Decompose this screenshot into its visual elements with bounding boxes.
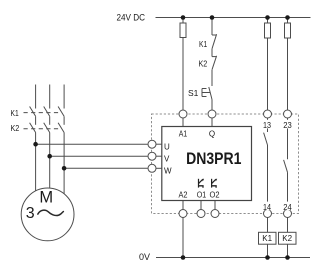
svg-text:K1: K1 [11, 108, 19, 118]
svg-text:O2: O2 [210, 191, 221, 200]
svg-text:DN3PR1: DN3PR1 [186, 150, 242, 168]
svg-text:23: 23 [283, 121, 292, 130]
svg-text:13: 13 [263, 121, 271, 130]
svg-text:W: W [164, 167, 172, 176]
svg-text:U: U [164, 143, 170, 152]
svg-text:O1: O1 [197, 191, 207, 200]
svg-text:K1: K1 [199, 39, 207, 49]
svg-text:A1: A1 [179, 130, 188, 139]
svg-text:14: 14 [263, 203, 271, 212]
svg-text:K2: K2 [282, 234, 292, 243]
svg-text:A2: A2 [179, 191, 188, 200]
svg-text:3: 3 [26, 205, 35, 222]
svg-text:K2: K2 [199, 58, 208, 68]
svg-text:K2: K2 [11, 123, 20, 133]
svg-text:V: V [164, 155, 170, 164]
svg-text:24V DC: 24V DC [117, 13, 146, 23]
svg-text:S1: S1 [188, 88, 199, 98]
svg-text:0V: 0V [139, 252, 150, 262]
svg-text:24: 24 [283, 203, 292, 212]
svg-text:K1: K1 [262, 234, 272, 243]
svg-text:M: M [39, 188, 53, 206]
svg-text:Q: Q [209, 130, 215, 139]
